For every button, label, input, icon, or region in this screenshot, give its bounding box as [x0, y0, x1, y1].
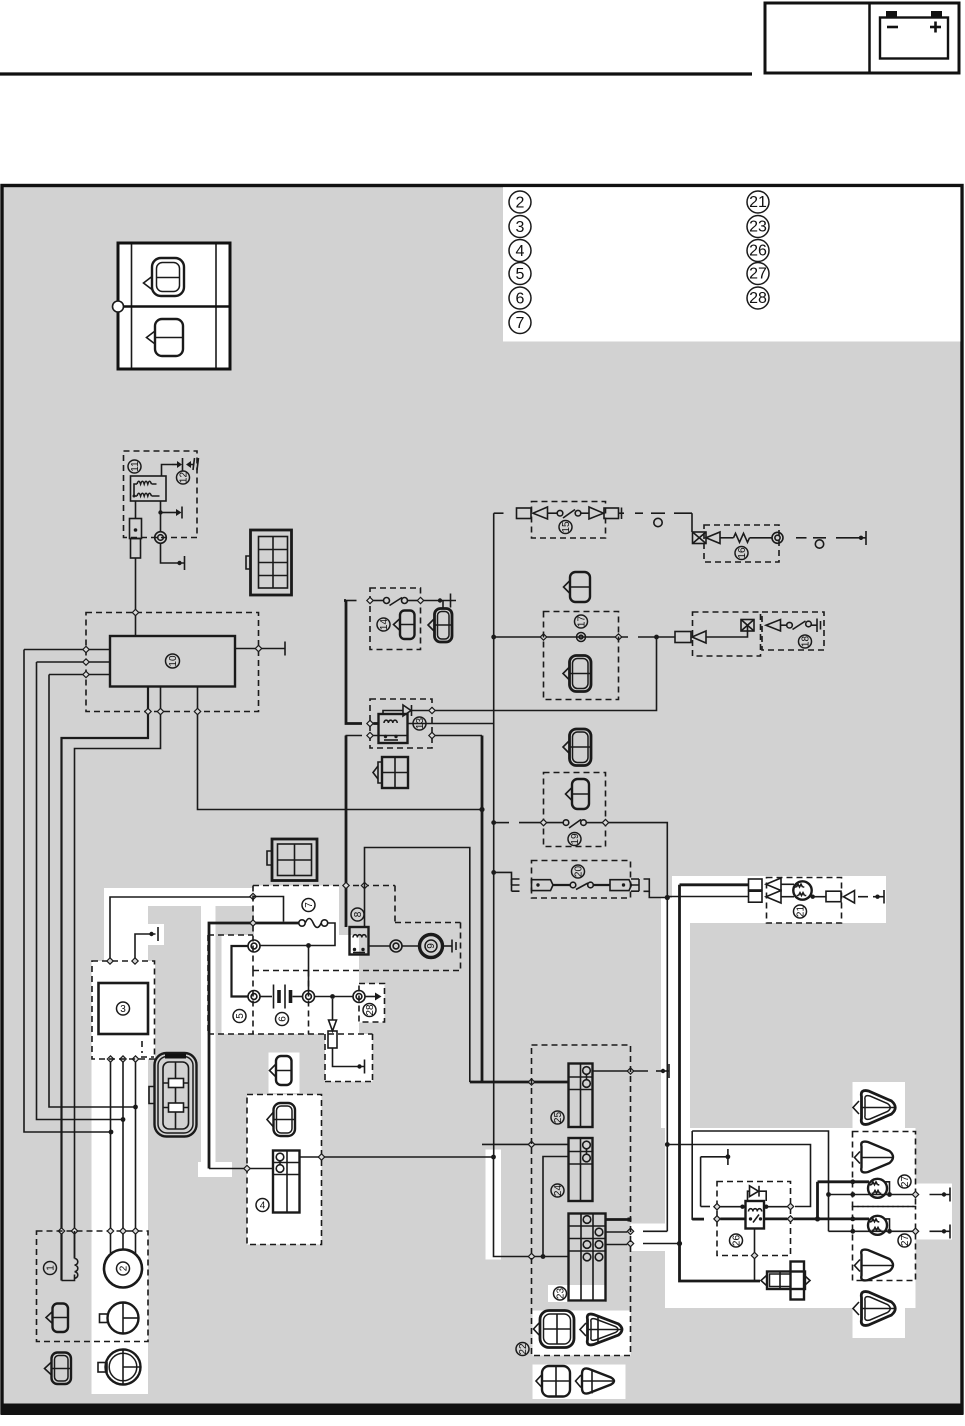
tail light bulb	[793, 881, 811, 899]
legend item 23	[747, 216, 769, 238]
spare connector below box 1	[45, 1353, 72, 1385]
label 26	[730, 1234, 743, 1247]
upper bulb 27 feed row	[818, 1179, 870, 1184]
tail light unit 21 dashed box	[767, 878, 842, 924]
turn signal connector triangle 2	[855, 1142, 894, 1173]
label 24	[551, 1184, 564, 1197]
connector square in box 22	[534, 1311, 575, 1348]
svg-text:5: 5	[235, 1013, 246, 1019]
label 23	[554, 1287, 567, 1300]
cross shaped connector	[761, 1262, 810, 1300]
label 14	[377, 618, 390, 631]
main switch internal wire	[253, 897, 284, 922]
legend item 2	[509, 191, 531, 213]
connector above box 19	[563, 729, 591, 766]
svg-text:27: 27	[749, 266, 767, 283]
connector above box 4	[270, 1056, 292, 1085]
spare lamp socket below box 1	[98, 1350, 141, 1385]
label 3	[117, 1002, 130, 1015]
junction of lighting wires	[665, 895, 670, 900]
pickup coil 1 dashed box	[37, 1231, 149, 1342]
main feed wire from fuse to ignition switch 4	[209, 923, 299, 1169]
svg-text:3: 3	[516, 219, 525, 236]
spare connector square below box 22	[536, 1366, 570, 1397]
svg-text:6: 6	[278, 1016, 289, 1022]
connector triangle in box 22	[580, 1314, 623, 1345]
ground at starter motor	[443, 940, 456, 953]
coil primary lead terminal	[130, 501, 142, 613]
fuse block 25	[569, 1064, 593, 1128]
starter relay 5 terminals	[232, 940, 261, 1003]
svg-text:4: 4	[260, 1201, 266, 1212]
svg-text:10: 10	[168, 655, 179, 667]
block 23 output row 1	[606, 1218, 632, 1222]
legend item 5	[509, 263, 531, 285]
wire bus B to fuse block 24	[482, 1143, 569, 1145]
label 8	[351, 908, 364, 921]
CDI unit 10 body	[110, 636, 235, 687]
starter relay 5 dashed outline	[208, 935, 373, 1034]
svg-text:27: 27	[900, 1235, 911, 1247]
relay 13 coil row wire	[367, 720, 495, 726]
legend item 28	[747, 287, 769, 309]
turn signal loop wire upper	[692, 1131, 831, 1231]
flasher relay 26 diode	[748, 1186, 767, 1201]
svg-text:25: 25	[553, 1112, 564, 1124]
battery positive terminal ring	[303, 991, 354, 1003]
handlebar switch 22 dashed box	[532, 1045, 631, 1356]
svg-text:2: 2	[516, 195, 525, 212]
wire from stop switch to relay 13	[344, 601, 362, 724]
legend item 6	[509, 287, 531, 309]
connector inside box 19	[566, 779, 590, 809]
headlight 18 dashed boxes	[693, 612, 761, 656]
switch 4 input wire	[209, 1165, 273, 1171]
label 10	[166, 654, 180, 668]
horizontal rule	[0, 72, 752, 75]
svg-text:23: 23	[556, 1288, 567, 1300]
label 21	[794, 905, 807, 918]
dashed stub at 6-pin connector	[141, 1041, 154, 1057]
relay 13 contact row wire to bus	[346, 732, 483, 738]
battery 6 symbol	[260, 985, 302, 1009]
key connector symbol (single)	[147, 319, 184, 356]
switch 20 chain	[494, 872, 668, 897]
lower bulb 27 feed row	[818, 1217, 870, 1222]
label 22	[516, 1343, 529, 1356]
CDI bottom wire E to pickup coil	[75, 687, 161, 1259]
svg-text:4: 4	[516, 243, 525, 260]
headlight feed bus B	[491, 513, 503, 1144]
fuse block 24	[569, 1138, 593, 1201]
legend white box	[503, 187, 960, 341]
label 11	[128, 460, 141, 473]
connector inside box 4	[267, 1103, 295, 1136]
flasher coil row wire	[714, 1203, 794, 1210]
tail light feed connectors	[667, 878, 794, 903]
svg-text:9: 9	[426, 943, 437, 949]
svg-text:26: 26	[732, 1235, 743, 1247]
block 23 output row 3	[606, 1240, 683, 1246]
ignition switch 4 contact block	[273, 1151, 300, 1213]
connector below in box 17	[563, 656, 591, 692]
svg-text:26: 26	[749, 243, 767, 260]
ignition coil body	[131, 476, 167, 501]
label 15	[559, 521, 572, 534]
turn signal connector triangle 1	[853, 1091, 896, 1125]
svg-text:3: 3	[120, 1004, 126, 1015]
relay 8 feed wire	[345, 736, 348, 928]
starter motor 9	[420, 935, 443, 958]
relay 13 body	[379, 714, 408, 743]
4-pin connector below relay 13	[373, 757, 408, 788]
ignition switch 4 dashed box	[247, 1095, 322, 1245]
svg-text:2: 2	[119, 1265, 130, 1271]
switch 4 output wire	[300, 1154, 494, 1160]
front brake switch 15 dashed box	[532, 502, 606, 539]
headlight wire through dimmer switch 17	[494, 633, 675, 711]
flasher/horn switch 19 dashed box	[544, 773, 606, 847]
svg-text:15: 15	[561, 521, 572, 533]
rectifier wire terminator	[132, 927, 158, 964]
label 18	[799, 635, 812, 648]
legend item 4	[509, 240, 531, 262]
connector key box	[113, 243, 231, 369]
circuit breaker 28	[353, 991, 382, 1003]
svg-text:7: 7	[304, 902, 315, 908]
battery 6 / breaker 28 dashed outline	[325, 984, 385, 1082]
label 6	[276, 1013, 289, 1026]
magneto lead wires	[107, 1056, 138, 1253]
6-pin block connector	[149, 1053, 197, 1137]
label 5	[233, 1010, 246, 1023]
connector in box 1	[46, 1304, 68, 1333]
harness bus wire A (CDI pin to magneto)	[24, 650, 111, 1133]
svg-text:1: 1	[46, 1265, 57, 1271]
label 17	[575, 615, 588, 628]
ignition coil 11 dashed box	[124, 451, 198, 538]
svg-text:20: 20	[574, 866, 585, 878]
harness bus wire C	[49, 675, 136, 1108]
main switch 7 dashed outline	[253, 886, 461, 971]
legend item 3	[509, 216, 531, 238]
relay 13 diode	[383, 705, 494, 716]
svg-text:21: 21	[796, 906, 807, 918]
turn signal loop wire lower	[665, 1142, 811, 1206]
svg-text:27: 27	[900, 1176, 911, 1188]
label 20	[572, 865, 585, 878]
brake switch 16 chain	[693, 531, 867, 548]
dimmer switch 17 dashed box	[544, 612, 619, 700]
tail light feed wire thick	[680, 885, 761, 1281]
pickup coil winding	[62, 1231, 78, 1281]
svg-text:28: 28	[365, 1004, 376, 1016]
svg-text:18: 18	[801, 636, 812, 648]
white background zones	[92, 876, 953, 1399]
svg-text:24: 24	[553, 1185, 564, 1197]
legend item 27	[747, 263, 769, 285]
label 25	[551, 1111, 564, 1124]
main bus A	[481, 736, 484, 1083]
label 13	[413, 717, 426, 730]
lighting vertical wire thin	[666, 898, 668, 1232]
flasher output wire down to connector	[751, 1229, 757, 1282]
svg-text:7: 7	[516, 315, 525, 332]
svg-text:21: 21	[749, 194, 767, 211]
wire bus A to fuse block 25	[470, 1081, 569, 1084]
svg-text:14: 14	[379, 619, 390, 631]
brake switch 15 chain	[494, 507, 624, 519]
switch 19 chain	[494, 819, 668, 897]
upper bulb return row	[829, 1188, 951, 1202]
rectifier 3 body	[99, 983, 149, 1034]
block 23 output row 2	[606, 1228, 668, 1234]
turn signal connector triangle 4	[853, 1292, 896, 1326]
svg-text:5: 5	[516, 266, 525, 283]
4-pin connector above main switch	[267, 839, 317, 881]
legend item 21	[747, 191, 769, 213]
turn signal lamp box lower 27	[853, 1207, 916, 1281]
spark plug 12	[162, 458, 199, 476]
svg-text:6: 6	[516, 291, 525, 308]
turn signal lamp box upper 27	[853, 1132, 916, 1207]
label 19	[568, 833, 581, 846]
tail light output terminator	[811, 890, 885, 904]
main switch 20 dashed box	[532, 861, 631, 899]
label 16	[735, 547, 748, 560]
flasher relay 26 body	[746, 1201, 765, 1229]
label 12	[177, 471, 190, 484]
svg-text:17: 17	[577, 616, 588, 628]
upper turn signal bulb	[868, 1179, 890, 1198]
CDI right wire terminator	[235, 642, 285, 656]
lower turn signal bulb	[868, 1216, 890, 1235]
CDI bottom wire D to pickup coil	[62, 687, 149, 1281]
block 24 second input wire	[541, 1157, 569, 1259]
block 25 output terminator	[593, 1064, 670, 1078]
rectifier wire to main switch circuit	[107, 893, 256, 964]
connector in box 14	[394, 611, 415, 640]
coil ground lead with plug cap	[155, 501, 185, 570]
CDI left input wires	[24, 646, 110, 677]
AC magneto 2	[104, 1250, 142, 1288]
junction block 23	[569, 1214, 606, 1301]
flasher relay 26 dashed box	[717, 1182, 791, 1256]
starter relay 8	[350, 927, 369, 955]
CDI top wire from coil	[135, 613, 137, 637]
starting circuit cut-off relay 13 dashed box	[370, 699, 432, 748]
legend item 26	[747, 240, 769, 262]
CDI unit 10 dashed box	[86, 613, 259, 712]
svg-text:8: 8	[353, 911, 364, 917]
svg-text:22: 22	[518, 1343, 529, 1355]
connector right of box 14	[428, 601, 452, 642]
label 27 upper	[898, 1175, 911, 1188]
turn signal connector triangle 3	[855, 1250, 894, 1281]
stop switch contacts	[344, 594, 456, 608]
spare connector triangle below box 22	[576, 1368, 615, 1393]
headlight bulb chain	[675, 619, 821, 644]
engine stop switch 14 dashed box	[370, 588, 421, 650]
main fuse link to ground	[328, 999, 365, 1074]
lower bulb return row	[829, 1225, 951, 1239]
title block	[765, 3, 959, 73]
CDI bottom wire F to main feed junction	[198, 687, 483, 810]
connector above box 17	[564, 572, 591, 602]
flasher contact row wire	[714, 1216, 818, 1222]
8-pin connector grid	[246, 530, 292, 595]
meter lamp socket	[100, 1303, 139, 1334]
starter motor 9 circuit	[369, 940, 420, 952]
rectifier 3 dashed box	[92, 961, 155, 1059]
legend item 7	[509, 312, 531, 334]
svg-text:23: 23	[749, 219, 767, 236]
svg-text:19: 19	[570, 833, 581, 845]
svg-text:11: 11	[130, 461, 141, 472]
label 7	[302, 899, 315, 912]
label 27 lower	[898, 1234, 911, 1247]
label 4	[256, 1199, 269, 1212]
relay 8 switched wire to junction	[365, 848, 470, 1083]
block 23 bottom feed wire	[491, 1155, 568, 1260]
key connector symbol (double)	[144, 258, 185, 296]
battery icon	[880, 11, 948, 59]
svg-text:16: 16	[737, 547, 748, 559]
label 28	[363, 1004, 376, 1017]
svg-text:12: 12	[179, 472, 190, 484]
harness bus wire B	[37, 662, 124, 1120]
turn signal feed tee wire	[815, 1182, 820, 1222]
rear brake switch 16 dashed box	[704, 525, 779, 562]
flasher branch wire with terminator	[701, 1149, 731, 1165]
bullet connector after 15	[635, 513, 692, 532]
fuse 7	[260, 919, 335, 991]
label 1	[44, 1262, 57, 1275]
svg-text:28: 28	[749, 290, 767, 307]
